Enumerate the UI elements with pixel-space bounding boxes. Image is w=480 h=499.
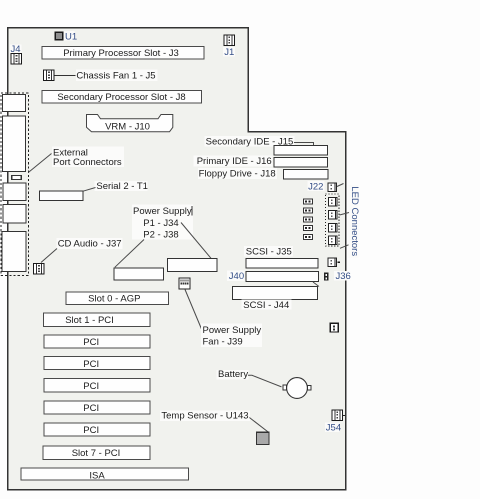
Secondary Processor Slot J8	[42, 90, 202, 103]
LED connector 4	[328, 236, 337, 245]
small port	[12, 175, 22, 179]
connector J22	[308, 181, 344, 193]
port rect 1	[3, 95, 26, 112]
connector J54	[325, 410, 345, 434]
svg-text:Battery: Battery	[218, 369, 248, 380]
svg-text:CD Audio - J37: CD Audio - J37	[58, 239, 122, 250]
J40	[227, 270, 319, 282]
svg-text:PCI: PCI	[83, 337, 99, 348]
svg-text:Serial 2 - T1: Serial 2 - T1	[96, 181, 148, 192]
PCI slot 5	[44, 401, 150, 414]
svg-text:J22: J22	[308, 182, 323, 193]
SCSI J35	[244, 246, 318, 268]
external port connectors label	[28, 147, 124, 173]
svg-text:Temp Sensor - U143: Temp Sensor - U143	[161, 411, 248, 422]
PCI slot 6	[44, 423, 150, 436]
motherboard outline	[8, 28, 346, 490]
port rect 4	[3, 205, 26, 223]
ISA slot	[21, 468, 188, 482]
LED connectors dotted box	[325, 194, 339, 246]
svg-text:Chassis Fan 1 - J5: Chassis Fan 1 - J5	[76, 71, 155, 82]
temp sensor U143	[160, 410, 269, 444]
LED connector 3	[328, 224, 337, 233]
svg-text:P2 - J38: P2 - J38	[143, 229, 178, 240]
slot 1 PCI	[44, 313, 151, 327]
svg-text:PCI: PCI	[83, 403, 99, 414]
svg-text:J54: J54	[326, 423, 341, 434]
connector J4	[10, 44, 22, 64]
svg-text:Power Supply: Power Supply	[133, 206, 192, 217]
power connector P1 J34	[168, 259, 217, 272]
leader P1	[181, 223, 211, 259]
slot 7 PCI	[43, 446, 150, 460]
svg-text:Slot 7 - PCI: Slot 7 - PCI	[72, 448, 121, 459]
svg-text:P1 - J34: P1 - J34	[143, 218, 178, 229]
connector J36	[324, 271, 351, 282]
svg-text:Secondary Processor Slot - J8: Secondary Processor Slot - J8	[57, 92, 185, 103]
svg-text:ISA: ISA	[89, 470, 105, 481]
port rect 5	[2, 231, 26, 271]
connector J1	[223, 35, 235, 58]
svg-text:U1: U1	[65, 32, 77, 43]
LED connector 1	[328, 198, 337, 207]
LED connector 2	[328, 211, 337, 220]
svg-text:PCI: PCI	[83, 381, 99, 392]
power supply label	[132, 205, 193, 241]
svg-text:Primary Processor Slot - J3: Primary Processor Slot - J3	[63, 48, 179, 59]
svg-text:J36: J36	[336, 271, 351, 282]
svg-text:Slot 1 - PCI: Slot 1 - PCI	[65, 315, 114, 326]
IC U1	[55, 31, 77, 42]
CD audio J37	[34, 238, 123, 274]
primary IDE J16	[194, 156, 328, 168]
PCI slot 2	[44, 335, 150, 348]
leader P2	[115, 240, 144, 268]
svg-text:J1: J1	[224, 47, 234, 58]
svg-text:SCSI - J35: SCSI - J35	[246, 246, 292, 257]
svg-text:Port Connectors: Port Connectors	[53, 157, 122, 168]
port rect 2	[3, 116, 26, 172]
svg-text:Floppy Drive - J18: Floppy Drive - J18	[199, 168, 276, 179]
SCSI J44	[232, 282, 319, 311]
svg-text:J40: J40	[229, 271, 244, 282]
connector below LED box	[328, 258, 340, 267]
svg-text:LED Connectors: LED Connectors	[349, 186, 360, 256]
PCI slot 4	[44, 379, 150, 392]
svg-text:PCI: PCI	[83, 425, 99, 436]
power connector P2 J38	[114, 268, 164, 280]
external port connectors dashed area	[1, 93, 28, 276]
svg-text:Slot 0 - AGP: Slot 0 - AGP	[88, 293, 140, 304]
PCI slot 3	[44, 357, 150, 370]
svg-text:Primary IDE - J16: Primary IDE - J16	[197, 156, 272, 167]
jumper pin connectors column	[303, 199, 312, 240]
svg-text:Power Supply: Power Supply	[203, 325, 262, 336]
secondary IDE J15	[205, 136, 328, 155]
leader fan J39	[185, 290, 202, 330]
unlabeled connector right	[330, 323, 338, 332]
svg-text:SCSI - J44: SCSI - J44	[243, 300, 289, 311]
slot 0 AGP	[66, 292, 168, 305]
port rect 3	[3, 183, 26, 200]
LED connectors rotated label	[340, 185, 360, 258]
VRM J10	[87, 115, 173, 133]
power supply fan J39 connector	[179, 278, 190, 289]
battery	[217, 369, 311, 398]
floppy drive J18	[198, 168, 328, 179]
svg-text:VRM - J10: VRM - J10	[105, 121, 150, 132]
chassis fan connector J5	[44, 69, 158, 81]
svg-text:Fan - J39: Fan - J39	[203, 337, 243, 348]
power supply fan label	[201, 324, 262, 348]
serial 2 T1	[40, 181, 148, 201]
svg-text:PCI: PCI	[83, 359, 99, 370]
Primary Processor Slot J3	[42, 46, 204, 59]
